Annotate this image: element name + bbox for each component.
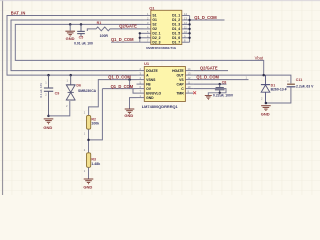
diode D1 <box>261 75 270 103</box>
wire U1 GND pin to ground <box>130 98 137 109</box>
svg-text:D1_5: D1_5 <box>172 32 180 36</box>
wire VS row <box>193 79 248 81</box>
svg-text:FB: FB <box>146 82 151 86</box>
svg-text:OV: OV <box>146 87 152 91</box>
svg-text:LM74800QDRRRQ1: LM74800QDRRRQ1 <box>142 104 179 109</box>
svg-text:100k: 100k <box>91 122 99 126</box>
svg-text:Q1_D_COM: Q1_D_COM <box>108 74 131 79</box>
wire R2 bottom to R3 top <box>88 129 90 153</box>
wire VSNS/FB divider top <box>89 80 137 116</box>
node D2 tie junctions <box>139 32 141 34</box>
node C9 bottom junction <box>47 115 50 118</box>
svg-text:Q1_D_COM: Q1_D_COM <box>111 84 134 89</box>
svg-text:Q1_D_COM: Q1_D_COM <box>196 75 219 80</box>
U1 pin numbers <box>140 67 191 98</box>
resistor R2 100k <box>87 115 91 129</box>
node C5 tap on S2 bus <box>80 23 83 26</box>
svg-text:DGATE: DGATE <box>146 69 158 73</box>
svg-text:S2: S2 <box>152 23 156 27</box>
svg-text:B260-13-F: B260-13-F <box>271 87 287 91</box>
svg-text:D1_2: D1_2 <box>172 18 180 22</box>
svg-text:Q1: Q1 <box>149 6 155 11</box>
svg-text:GND: GND <box>83 184 92 189</box>
Q1 pin numbers <box>147 12 187 43</box>
wire OV / EN-UVLO row <box>89 89 137 140</box>
transistor Q1 dual MOSFET body <box>146 6 182 50</box>
svg-text:Q1_D_COM: Q1_D_COM <box>194 15 217 20</box>
node cap bottom junction <box>219 92 221 94</box>
svg-text:S1: S1 <box>152 14 156 18</box>
svg-text:VSNS: VSNS <box>146 78 156 82</box>
svg-text:Q2/GATE: Q2/GATE <box>119 24 137 29</box>
svg-text:C11: C11 <box>296 78 302 82</box>
node Vbat junction <box>262 74 265 77</box>
op-amp U1 controller body <box>142 61 186 109</box>
wire S2/Vbat loop across top of U1 <box>15 24 263 75</box>
node C8 tap junction <box>219 83 221 85</box>
wire D2 tie on Q1 left pins 5-7 <box>111 33 144 42</box>
svg-text:G2: G2 <box>152 27 157 31</box>
svg-text:D1_3: D1_3 <box>172 23 180 27</box>
svg-text:CAP: CAP <box>177 82 185 86</box>
svg-text:NVMFD5C680NLT1G: NVMFD5C680NLT1G <box>146 46 177 50</box>
ground symbol (below C9) <box>44 119 54 124</box>
svg-text:C8: C8 <box>222 80 227 84</box>
TMR pin no-connect mark <box>193 91 196 94</box>
svg-text:D1_7: D1_7 <box>172 40 180 44</box>
svg-text:R3: R3 <box>91 157 96 161</box>
U1 pin stubs right <box>185 71 193 94</box>
svg-text:D1_4: D1_4 <box>172 27 180 31</box>
svg-text:Q2/GATE: Q2/GATE <box>200 66 218 71</box>
wire HGATE row <box>193 70 228 72</box>
svg-text:Q1_D_COM: Q1_D_COM <box>111 37 134 42</box>
Q1 pin names left <box>152 14 160 45</box>
svg-text:1.48k: 1.48k <box>91 162 100 166</box>
U1 pin stubs left <box>137 71 145 98</box>
svg-text:D6: D6 <box>76 83 81 87</box>
svg-text:TMR: TMR <box>176 91 184 95</box>
node R2/R3/EN divider junction <box>87 139 90 142</box>
node C9 tap <box>47 74 50 77</box>
svg-text:100R: 100R <box>100 34 109 38</box>
svg-text:GND: GND <box>146 96 154 100</box>
U1 pin names right <box>172 69 185 96</box>
wire VSNS to OV link <box>129 80 131 89</box>
svg-text:0.01 uF, 100: 0.01 uF, 100 <box>74 42 93 46</box>
svg-text:D2_2: D2_2 <box>152 36 160 40</box>
ground symbol (below R3) <box>84 179 94 184</box>
node diode/C11 ground junction <box>265 102 268 105</box>
svg-text:0.22uF, 100V: 0.22uF, 100V <box>213 94 234 98</box>
node TVS tap <box>69 74 72 77</box>
svg-text:OUT: OUT <box>177 73 185 77</box>
ground symbol (top, near C5) <box>65 31 75 36</box>
svg-text:2.2uF, 63 V: 2.2uF, 63 V <box>296 85 314 89</box>
TVS diode D6 <box>66 75 75 100</box>
capacitor C9 0.1uF <box>44 75 53 116</box>
resistor R3 1.48k <box>87 153 91 168</box>
node GND tap on S2 bus <box>69 23 72 26</box>
wire D1 tie on Q1 right pins <box>190 16 225 43</box>
svg-text:EN/UVLO: EN/UVLO <box>146 91 161 95</box>
svg-text:GND: GND <box>66 36 75 41</box>
svg-text:VS: VS <box>179 78 184 82</box>
wire R3 bottom lead <box>88 167 90 178</box>
svg-text:SMBJ30CA: SMBJ30CA <box>78 89 97 93</box>
capacitor C8 0.22uF <box>215 84 225 93</box>
wire diode bottom to C11 bottom <box>266 88 291 104</box>
svg-text:D1_6: D1_6 <box>172 36 180 40</box>
svg-text:0.1 uF, 16V: 0.1 uF, 16V <box>39 83 43 98</box>
svg-text:R1: R1 <box>97 21 102 25</box>
ground symbol (U1 GND) <box>125 109 135 114</box>
svg-text:HGATE: HGATE <box>172 69 184 73</box>
node VSNS junction <box>128 78 131 81</box>
svg-text:GND: GND <box>124 113 133 118</box>
svg-text:U1: U1 <box>144 61 150 66</box>
wire C9/TVS bottom link <box>49 101 70 116</box>
svg-text:D2_3: D2_3 <box>152 40 160 44</box>
capacitor C5 0.01uF <box>77 24 85 36</box>
resistor R1 100R (zigzag on G2 wire) <box>87 27 143 31</box>
ground symbol (small, near C8) <box>205 96 212 100</box>
sheet border left edge <box>2 0 4 195</box>
wire GND tap lead <box>69 24 71 30</box>
wire CAP row <box>193 83 226 85</box>
svg-text:C5: C5 <box>79 35 84 39</box>
wire OUT row to C11 <box>193 75 291 83</box>
wire BAT_IN bus: S1 to left loop down to A-pin row <box>7 16 144 76</box>
capacitor C11 2.2uF <box>287 84 296 87</box>
Q1 pin names right <box>172 14 180 45</box>
sheet border top edge <box>0 0 320 2</box>
svg-text:D2_1: D2_1 <box>152 32 160 36</box>
svg-text:GND: GND <box>261 112 270 117</box>
Q1 pin stubs left <box>144 16 151 43</box>
svg-text:GND: GND <box>43 125 52 130</box>
svg-text:G1: G1 <box>152 18 157 22</box>
Q1 pin stubs right <box>182 16 190 43</box>
node D1 tie junctions <box>188 19 190 21</box>
wire C row to cap bottom and ground <box>193 89 226 96</box>
svg-text:Vbat: Vbat <box>255 55 264 60</box>
ground symbol (right) <box>261 106 271 111</box>
svg-text:C9: C9 <box>55 92 60 96</box>
svg-text:D1_1: D1_1 <box>172 14 180 18</box>
wire G1/DGATE loop <box>11 20 144 71</box>
U1 pin names left <box>146 69 161 100</box>
svg-text:BAT_IN: BAT_IN <box>11 11 26 16</box>
